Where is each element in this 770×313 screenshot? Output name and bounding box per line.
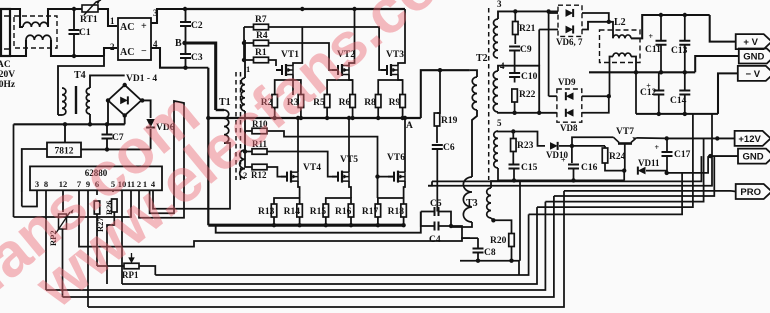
wire feedback run 3 <box>46 202 545 290</box>
bottom rail of aux supply <box>14 123 125 125</box>
T2 winding 4 <box>493 71 498 112</box>
junction VT2 drain rail <box>352 7 356 11</box>
junction R3 rail <box>299 116 303 120</box>
junction R14 rail <box>297 223 301 227</box>
wire R15 R16 tops <box>326 198 351 204</box>
wire to aux GND <box>554 156 714 196</box>
svg-text:VD8: VD8 <box>560 123 578 133</box>
wire R7 right to VT3 gate <box>269 27 382 70</box>
wire R10 left <box>245 130 252 132</box>
junction R21 top <box>513 9 517 13</box>
wire down to 7812 <box>64 124 66 142</box>
thick lower source rail <box>208 224 404 227</box>
wire VD1-4 right to VD6 <box>141 100 150 118</box>
wire VD8 cathode out <box>582 96 609 113</box>
resistor R10 <box>252 128 267 134</box>
svg-text:C6: C6 <box>443 143 455 153</box>
junction VD67 branch <box>546 9 550 13</box>
wire T3 secondary bottom <box>491 218 493 220</box>
wire C4 left lead <box>421 212 435 227</box>
svg-text:R15: R15 <box>310 207 327 217</box>
filter choke bottom winding <box>26 35 51 40</box>
wire VD10 node to R24 <box>572 145 605 147</box>
junction C1 top <box>72 7 76 11</box>
junction L2 input <box>607 20 611 24</box>
junction C4 C5 T3 <box>449 224 453 228</box>
diode VD10 <box>550 142 558 150</box>
resistor R4 <box>254 40 269 46</box>
aux GND line <box>710 155 738 157</box>
junction T3 R20 <box>491 218 495 222</box>
junction VD1-4 top <box>123 83 127 87</box>
svg-text:R22: R22 <box>519 90 536 100</box>
svg-text:C11: C11 <box>645 45 661 55</box>
svg-text:B: B <box>175 38 182 49</box>
svg-text:C2: C2 <box>191 21 203 31</box>
junction C11 top <box>659 13 663 17</box>
wire long branch down to VD9 <box>548 11 550 96</box>
wire VT4 drain up <box>297 118 299 172</box>
wire rail to VD11 <box>623 171 625 181</box>
wire R3 bottom <box>300 108 302 119</box>
wire VT3 drain up <box>398 9 405 66</box>
junction R11 left <box>243 149 247 153</box>
wire R1 left lead <box>244 59 254 61</box>
minus V bottom rail <box>636 113 718 115</box>
filter choke top winding <box>23 22 48 27</box>
wire choke top out <box>48 9 74 27</box>
junction R17 rail <box>376 223 380 227</box>
wire VT1 drain up <box>293 27 302 66</box>
wire R21 top lead <box>514 11 516 21</box>
capacitor C17 <box>655 143 673 156</box>
wire C8 R20 rail down to run <box>460 261 519 275</box>
svg-text:R13: R13 <box>258 207 275 217</box>
wire pin10 down <box>121 190 123 284</box>
svg-text:AC: AC <box>120 22 134 33</box>
wire R23 top <box>512 132 514 139</box>
T4 secondary winding <box>86 88 90 114</box>
svg-text:+ V: + V <box>743 37 758 48</box>
svg-text:R6: R6 <box>339 98 351 108</box>
svg-text:VD9: VD9 <box>558 77 576 87</box>
wire sense line upper <box>432 156 701 181</box>
junction C17 top <box>665 136 669 140</box>
svg-text:R4: R4 <box>256 31 268 41</box>
wire C6 bottom down <box>436 149 438 195</box>
wire T4 primary bottom lead <box>58 114 62 116</box>
wire rail to VD8 <box>556 112 558 114</box>
wire VT2 drain up <box>349 9 355 66</box>
svg-text:220V: 220V <box>0 70 15 80</box>
wire VT4 source down <box>298 181 300 198</box>
junction R13 rail <box>272 223 276 227</box>
svg-text:T4: T4 <box>74 70 86 81</box>
wire T3 primary bottom <box>451 222 472 227</box>
wire 7812-left down <box>21 192 23 207</box>
wire R20 bottom <box>511 247 513 261</box>
junction R4 left <box>242 41 246 45</box>
junction VT6 drain <box>403 116 407 120</box>
resistor R15 <box>323 204 329 217</box>
svg-text:3: 3 <box>497 0 502 9</box>
wire T1 primary bottom <box>224 142 230 144</box>
svg-text:C4: C4 <box>429 235 441 245</box>
wire C11 top lead <box>660 15 662 41</box>
svg-text:R23: R23 <box>517 141 534 151</box>
T3 secondary winding <box>487 188 491 218</box>
wire winding1 to gate bus <box>244 39 245 41</box>
capacitor C11 <box>649 32 667 45</box>
wire plug top to choke <box>10 9 23 27</box>
junction R18 rail <box>401 223 405 227</box>
resistor R9 <box>400 95 406 108</box>
wire R11 left lead <box>245 151 252 153</box>
wire pin6 to R27 <box>96 190 98 195</box>
+12V rail <box>667 137 735 139</box>
wire VD9 cathode out <box>582 95 609 97</box>
GND mid rail <box>589 71 695 73</box>
svg-text:7812: 7812 <box>55 147 74 157</box>
svg-text:+: + <box>561 156 566 165</box>
svg-text:R20: R20 <box>490 236 507 246</box>
terminal +12V <box>735 131 770 146</box>
T1 core <box>235 72 237 180</box>
wire to C8 and T3 <box>451 226 470 238</box>
winding5 bottom rail <box>498 168 624 180</box>
svg-text:R18: R18 <box>388 207 405 217</box>
wire into L2 top winding <box>609 22 613 38</box>
terminal -V <box>738 66 770 81</box>
svg-text:−: − <box>141 46 147 57</box>
svg-text:− V: − V <box>746 69 761 80</box>
terminal PRO <box>736 184 770 199</box>
wire C6 to C5 <box>436 195 438 212</box>
svg-text:R1: R1 <box>255 48 267 58</box>
wire C10 top lead <box>514 66 516 73</box>
wire to RT1 <box>74 8 82 10</box>
watermark www.elecfans.com <box>0 0 493 313</box>
wire pins 2 and 1 loop up <box>139 101 184 218</box>
svg-text:VT6: VT6 <box>387 153 405 163</box>
junction R1 left <box>242 58 246 62</box>
L2 top winding <box>613 35 631 38</box>
wire VD6 to 7812 output <box>150 129 152 149</box>
wire C14 top lead <box>684 72 686 90</box>
terminal GND 12V <box>738 149 770 164</box>
svg-text:GND: GND <box>743 52 764 63</box>
capacitor C15 <box>509 165 520 169</box>
wire pin9 down <box>87 190 89 307</box>
junction R15 rail <box>324 223 328 227</box>
junction R20 bottom <box>509 259 513 263</box>
wire R2 bottom <box>274 108 276 119</box>
capacitor C12 <box>646 82 664 95</box>
junction C16 bottom <box>571 178 575 182</box>
resistor R23 <box>511 139 517 152</box>
wire to L2 bottom winding <box>609 57 613 97</box>
junction C7 bottom <box>105 147 109 151</box>
resistor R27 <box>94 201 100 214</box>
svg-text:C12: C12 <box>640 88 657 98</box>
junction C12 top <box>634 70 638 74</box>
svg-text:C8: C8 <box>484 248 496 258</box>
wire C17 bottom lead <box>666 156 668 173</box>
svg-text:PRO: PRO <box>740 187 761 198</box>
svg-text:+12V: +12V <box>738 134 761 145</box>
resistor R24 <box>602 148 608 163</box>
capacitor C1 <box>69 30 80 34</box>
T1 secondary winding 1 <box>241 78 245 111</box>
svg-text:RT1: RT1 <box>80 15 98 25</box>
junction +12V line <box>715 136 719 140</box>
terminal GND <box>739 49 770 64</box>
wire T1 secondary tap <box>244 111 246 150</box>
junction VD11 left <box>622 168 626 172</box>
svg-text:C1: C1 <box>79 28 91 38</box>
wire to -V rail <box>537 114 693 207</box>
wire VT1 source down <box>292 75 294 96</box>
wire R6 bottom <box>352 108 354 119</box>
wire T2 primary bottom to T3 <box>472 110 477 177</box>
wire T4 secondary bottom <box>89 114 91 124</box>
wire R24 top <box>604 146 606 148</box>
wire R10 to VT6 gate <box>267 131 388 177</box>
wire node A to T2 primary <box>421 70 470 118</box>
diode VD8 <box>566 109 574 117</box>
svg-text:R19: R19 <box>441 116 458 126</box>
junction C13 top <box>683 13 687 17</box>
wire VT2 source down <box>349 75 353 96</box>
junction C15 bottom <box>512 178 516 182</box>
junction VT1 drain rail <box>300 7 304 11</box>
svg-text:50Hz: 50Hz <box>0 80 16 90</box>
resistor R17 <box>375 204 381 217</box>
T2 winding 3 <box>494 19 498 58</box>
wire to R20 top <box>493 220 511 233</box>
wire pin12 to RP2 <box>62 190 64 212</box>
wire VD6 cathode out <box>582 13 609 22</box>
wire 7812 left down to IC <box>22 149 47 192</box>
wire R26 bottom <box>107 212 114 284</box>
IC 62880 box <box>30 166 162 190</box>
svg-text:AC: AC <box>0 60 11 70</box>
svg-text:R24: R24 <box>609 152 626 162</box>
resistor R11 <box>252 149 267 155</box>
potentiometer RP1 <box>124 263 139 269</box>
junction R19 top <box>438 68 442 72</box>
junction R9 rail <box>400 116 404 120</box>
svg-text:C16: C16 <box>581 163 598 173</box>
wire R5 top to VT2 source <box>327 80 353 95</box>
wire feedback run 4 <box>63 196 554 297</box>
svg-text:+: + <box>141 21 147 32</box>
diode VD6 <box>566 9 574 17</box>
resistor R14 <box>297 204 303 217</box>
T1 secondary winding 2 <box>240 150 245 178</box>
wire left edge down <box>13 124 15 217</box>
junction VT4 drain <box>296 116 300 120</box>
wire AC to T4 primary <box>58 56 104 115</box>
junction T4 sec bottom <box>88 122 92 126</box>
wire L2 top out to +V rail <box>631 15 710 38</box>
wire feedback run 1 <box>155 214 528 275</box>
L2 bottom winding <box>613 53 631 56</box>
wire VT7 left arm to VD10 node <box>572 137 614 146</box>
resistor R22 <box>512 89 517 102</box>
svg-text:R7: R7 <box>255 15 267 25</box>
wire C16 top lead <box>571 146 573 163</box>
MOSFET VT5 <box>332 171 349 183</box>
wire to +12V line <box>545 138 703 201</box>
wire R3 top <box>293 80 301 95</box>
wire top to VD6 7 <box>515 10 558 12</box>
wire to PRO terminal <box>564 190 731 192</box>
resistor R16 <box>348 204 354 217</box>
resistor R18 <box>401 204 407 217</box>
wire C10 to R22 <box>514 77 516 83</box>
wire R8 bottom <box>377 108 379 119</box>
wire R1 to VT1 gate <box>269 60 277 66</box>
wire to +V terminal <box>710 15 736 42</box>
wire C9 bottom <box>514 51 516 66</box>
svg-text:C5: C5 <box>430 199 442 209</box>
wire to GND terminal <box>695 56 739 72</box>
svg-text:2: 2 <box>110 42 115 52</box>
wire R5 bottom <box>326 108 328 119</box>
wire C16 bottom lead <box>573 169 575 181</box>
capacitor C13 <box>679 41 690 45</box>
capacitor C16 <box>561 156 579 169</box>
svg-text:VT7: VT7 <box>616 127 634 137</box>
wire VD11 to C17 bottom <box>646 171 667 173</box>
wire C3 top lead <box>185 43 187 54</box>
resistor R13 <box>271 204 277 217</box>
capacitor C6 <box>432 145 443 149</box>
wire center tap down <box>515 66 540 113</box>
wire R15 bottom <box>325 217 327 225</box>
wire VT5 drain up <box>348 118 350 172</box>
wire C13 top lead <box>684 15 686 41</box>
svg-text:5: 5 <box>497 118 502 128</box>
bridge rectifier VD1-4 diamond <box>108 85 141 116</box>
wire pin4 to T1 primary return <box>153 142 230 209</box>
junction GND line <box>708 154 712 158</box>
capacitor C8 <box>473 249 484 253</box>
svg-text:+: + <box>655 143 660 152</box>
resistor R2 <box>272 95 278 108</box>
wire VT2 gate from R4 <box>329 60 332 70</box>
svg-text:VD11: VD11 <box>638 158 660 168</box>
resistor R7 <box>254 24 269 30</box>
wire C2 bottom lead <box>185 26 187 43</box>
mid source rail <box>208 117 420 119</box>
wire T1 secondary top up <box>244 40 246 78</box>
wire C4 right lead <box>439 225 452 227</box>
svg-text:A: A <box>406 121 413 131</box>
wire R18 bottom <box>403 217 405 225</box>
wire gate bus to R17 top <box>377 177 379 198</box>
wire RP1 right <box>139 266 155 275</box>
capacitor C5 <box>435 207 439 216</box>
capacitor C4 <box>435 222 439 231</box>
wire VD7 anode tap <box>538 30 540 66</box>
wire C1 bottom lead <box>73 34 75 56</box>
bridge rectifier box <box>118 18 151 60</box>
wire to C17 rail <box>529 173 683 215</box>
junction VD1-4 bottom <box>123 113 127 117</box>
resistor R1 <box>254 57 269 63</box>
junction C14 bottom <box>683 112 687 116</box>
wire C12 left branch <box>635 72 637 114</box>
svg-text:R16: R16 <box>335 207 352 217</box>
wire bridge pin4 to C3 bottom <box>151 48 186 68</box>
svg-text:VD6, 7: VD6, 7 <box>556 37 583 47</box>
common-mode filter choke dashed box <box>14 16 57 48</box>
wire B+ to T1 primary top <box>216 109 224 111</box>
junction VD89 output <box>607 94 611 98</box>
T4 core <box>75 86 77 114</box>
terminal +V <box>736 34 770 49</box>
wire C15 bottom <box>513 169 515 181</box>
rectifier VD9 VD8 dashed box <box>557 89 582 122</box>
wire R16 bottom <box>350 217 352 225</box>
wire VD7 cathode out <box>582 22 609 30</box>
wire RT1 to bridge pin1 <box>98 9 117 26</box>
wire VT5 source down <box>349 181 351 198</box>
wire bridge pin3 up to top rail <box>151 9 185 23</box>
wire R14 bottom <box>299 217 301 225</box>
svg-text:AC: AC <box>120 47 134 58</box>
wire R8 top to VT3 source <box>378 80 402 95</box>
wire VT7 right arm to +12V rail <box>637 137 667 140</box>
svg-text:R17: R17 <box>362 207 379 217</box>
junction C17 bottom <box>665 171 669 175</box>
wire R27 to RP1 <box>96 214 98 266</box>
wire PRO lead <box>731 190 736 193</box>
resistor R6 <box>350 95 356 108</box>
T4 primary winding <box>62 88 66 115</box>
junction C3 bottom <box>183 66 187 70</box>
wire R4 left lead <box>244 42 254 44</box>
wire C12 top lead <box>658 72 660 90</box>
capacitor C14 <box>679 91 690 95</box>
junction R2 rail <box>273 116 277 120</box>
junction mid rail left <box>206 116 210 120</box>
MOSFET VT1 <box>276 64 293 76</box>
junction VD1-4 left <box>106 98 110 102</box>
junction R22 rail <box>512 111 516 115</box>
svg-text:VT4: VT4 <box>303 163 321 173</box>
junction R6 rail <box>350 116 354 120</box>
wire winding5 top to VD10 <box>498 131 545 146</box>
wire R19 to C6 <box>436 126 438 143</box>
svg-text:C3: C3 <box>191 53 203 63</box>
svg-text:C10: C10 <box>521 72 538 82</box>
resistor R8 <box>375 95 381 108</box>
wire T2 primary top lead <box>470 70 477 77</box>
wire R22 bottom <box>514 102 516 113</box>
wire C14 bottom lead <box>684 95 686 114</box>
junction C7 rail <box>105 122 109 126</box>
resistor R12 <box>252 164 267 170</box>
wire VT3 source down <box>398 75 403 96</box>
junction VT6 gate <box>375 174 379 178</box>
diode VD11 <box>638 167 646 175</box>
wire branch to VD9 <box>549 95 557 97</box>
wire feedback run 2 <box>122 207 537 284</box>
junction R8 rail <box>376 116 380 120</box>
